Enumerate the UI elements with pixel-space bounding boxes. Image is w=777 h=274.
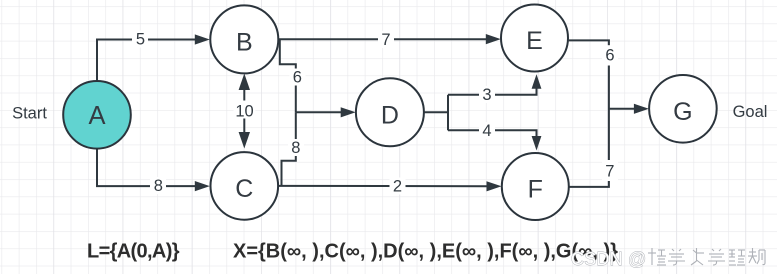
arrow into G bbox=[634, 104, 649, 114]
svg-text:F: F bbox=[528, 176, 543, 204]
label 5 bbox=[132, 31, 148, 49]
label 10 bbox=[234, 101, 256, 121]
arrow into D bbox=[341, 107, 356, 117]
label 2 bbox=[390, 178, 406, 196]
label 8 on C-D bbox=[288, 139, 304, 157]
label 8 on A-C bbox=[150, 177, 166, 195]
arrow up into E bottom bbox=[532, 74, 542, 89]
wire B to C double arrow bbox=[243, 89, 245, 134]
svg-text:E: E bbox=[526, 27, 543, 55]
char 2 bbox=[668, 249, 685, 265]
svg-text:7: 7 bbox=[381, 31, 390, 49]
svg-text:A: A bbox=[88, 102, 105, 130]
svg-text:B: B bbox=[236, 29, 253, 57]
char 3 bbox=[691, 248, 704, 265]
svg-text:L={A(0,A)}: L={A(0,A)} bbox=[87, 241, 180, 263]
svg-text:7: 7 bbox=[605, 162, 614, 180]
char 1 bbox=[648, 248, 666, 265]
node F bbox=[502, 153, 569, 220]
label 6 on B-D bbox=[290, 69, 306, 87]
wire A to C elbow bbox=[97, 149, 197, 186]
svg-text:G: G bbox=[673, 98, 692, 126]
svg-text:5: 5 bbox=[136, 31, 145, 49]
svg-text:Start: Start bbox=[12, 105, 47, 123]
label 3 bbox=[479, 86, 495, 104]
watermark chinese glyphs bbox=[648, 248, 765, 265]
wire B branch down to D junction bbox=[280, 40, 296, 113]
svg-text:6: 6 bbox=[293, 69, 302, 87]
svg-text:8: 8 bbox=[291, 139, 300, 157]
label 4 bbox=[479, 122, 495, 140]
arrow into F bbox=[487, 181, 502, 191]
wire C branch up to D junction bbox=[282, 112, 296, 185]
svg-text:8: 8 bbox=[154, 177, 163, 195]
arrow down into C bbox=[239, 132, 250, 149]
wire C to F bbox=[278, 185, 488, 187]
svg-text:10: 10 bbox=[235, 103, 253, 121]
node A (start, teal) bbox=[63, 81, 131, 149]
wire B to E bbox=[278, 38, 488, 40]
arrow into E bbox=[486, 34, 501, 44]
svg-text:C: C bbox=[235, 175, 253, 203]
node C bbox=[211, 152, 279, 220]
wire D split to E and F bbox=[424, 88, 536, 137]
arrow down into F top bbox=[532, 136, 542, 151]
char 4 bbox=[708, 249, 725, 265]
char 6 bbox=[748, 248, 765, 265]
node G bbox=[649, 75, 717, 143]
wire junction to G bbox=[609, 108, 636, 110]
svg-text:6: 6 bbox=[605, 47, 614, 65]
svg-text:3: 3 bbox=[482, 86, 491, 104]
label 7 on B-E bbox=[378, 31, 394, 49]
svg-text:4: 4 bbox=[482, 122, 491, 140]
arrow up into B bbox=[239, 74, 250, 91]
arrow into B bbox=[195, 34, 210, 44]
wire E branch to G junction bbox=[569, 40, 609, 187]
node D bbox=[356, 78, 424, 146]
arrow into C bbox=[195, 181, 210, 191]
svg-text:2: 2 bbox=[393, 178, 402, 196]
wire A to B elbow bbox=[97, 40, 197, 82]
svg-text:Goal: Goal bbox=[733, 103, 768, 121]
char 5 bbox=[729, 250, 745, 265]
wire junction to D bbox=[296, 111, 343, 113]
svg-text:CSDN @: CSDN @ bbox=[571, 249, 646, 269]
node E bbox=[501, 5, 568, 72]
svg-text:D: D bbox=[381, 101, 399, 129]
label 6 on E-G bbox=[602, 45, 618, 65]
node B bbox=[210, 5, 278, 73]
svg-text:X={B(∞, ),C(∞, ),D(∞, ),E(∞, ): X={B(∞, ),C(∞, ),D(∞, ),E(∞, ),F(∞, ),G(… bbox=[233, 241, 618, 263]
label 7 on F-G bbox=[602, 160, 618, 181]
